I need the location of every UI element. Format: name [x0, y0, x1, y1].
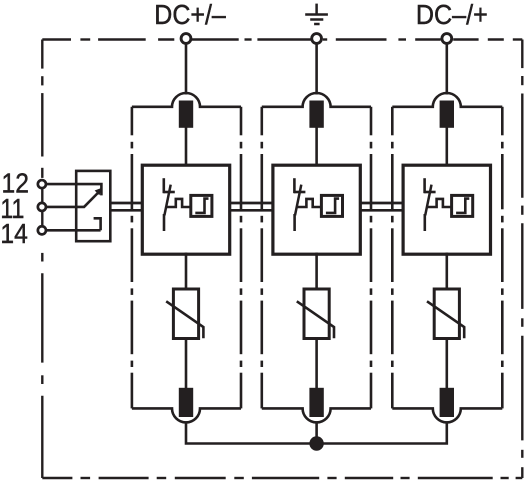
protection module 3 boundary: left edge (dash-dot) [391, 107, 394, 409]
wire from terminal DC+/- down to module 1 [185, 44, 188, 95]
protection module 1 boundary: top edge with plug-in bump [132, 93, 241, 107]
wire terminal 14 to contact [47, 229, 101, 232]
protection module 2 boundary: left edge (dash-dot) [260, 107, 263, 409]
step function glyph inside trigger box, module 3 [456, 199, 469, 213]
ground symbol (earth) above centre terminal [305, 4, 328, 24]
protection module 1 boundary: right edge (dash-dot) [240, 107, 243, 409]
wire from top disconnector to monitoring box, module 2 [315, 127, 318, 167]
protection module 1 boundary: bottom edge with plug-in bump [132, 408, 241, 422]
pulse-waveform link to trigger box, module 2 [297, 199, 322, 207]
monitoring / SCI switching device box of module 1 [142, 165, 229, 254]
varistor diagonal stroke with tail, module 3 [427, 301, 464, 338]
mechanical coupling bus (double line) from remote contact to module 1 [110, 203, 143, 210]
wire terminal 11 to contact (common) [47, 206, 85, 209]
thermal disconnect device (bottom, filled) of module 1 [179, 388, 193, 417]
pulse-waveform link to trigger box, module 1 [166, 199, 191, 207]
thermal disconnect device (top, filled) of module 3 [440, 101, 454, 128]
varistor of module 2 [304, 289, 329, 339]
wire from SCI box to varistor, module 2 [315, 253, 318, 291]
varistor of module 3 [434, 289, 459, 339]
switch contact symbol inside module 1 [163, 178, 174, 231]
mechanical coupling bus (double line) module 1 to module 2 [229, 203, 274, 210]
wire from terminal earth down to module 2 [315, 44, 318, 95]
varistor diagonal stroke with tail, module 1 [166, 301, 203, 338]
svg-text:DC–/+: DC–/+ [416, 0, 488, 30]
protection module 1 boundary: left edge (dash-dot) [131, 107, 134, 409]
thermal disconnect device (top, filled) of module 2 [309, 101, 323, 128]
mechanical coupling bus (double line) module 2 to module 3 [359, 203, 404, 210]
wire from varistor to bottom disconnector, module 3 [445, 337, 448, 390]
pulse-waveform link to trigger box, module 3 [427, 199, 452, 207]
wire from varistor to bottom disconnector, module 1 [185, 337, 188, 390]
wire from top disconnector to monitoring box, module 1 [185, 127, 188, 167]
terminal 14 [38, 226, 46, 234]
trigger box with step symbol, module 1 [191, 195, 212, 216]
protection module 2 boundary: bottom edge with plug-in bump [262, 408, 371, 422]
protection module 3 boundary: right edge (dash-dot) [501, 107, 504, 409]
outer enclosure border, top edge (dash-dot, interrupted by terminals) [42, 38, 522, 40]
step function glyph inside trigger box, module 2 [326, 199, 339, 213]
wire from varistor to bottom disconnector, module 2 [315, 337, 318, 390]
monitoring / SCI switching device box of module 3 [403, 165, 490, 254]
terminal 12 [38, 180, 46, 188]
wire module 2 bottom to common node [315, 421, 318, 443]
switch contact symbol inside module 3 [424, 178, 435, 231]
outer enclosure border, right edge (dash-dot) [521, 40, 523, 479]
wire from terminal DC-/+ down to module 3 [445, 44, 448, 95]
wire from top disconnector to monitoring box, module 3 [445, 127, 448, 167]
svg-text:DC+/–: DC+/– [154, 0, 226, 30]
contact 14 hook [94, 218, 101, 230]
terminal DC-/+ [442, 34, 452, 44]
svg-text:14: 14 [0, 218, 27, 249]
changeover switch blade with arrow tip [84, 193, 98, 207]
terminal earth [312, 34, 322, 44]
varistor of module 1 [173, 289, 198, 339]
thermal disconnect device (bottom, filled) of module 3 [440, 388, 454, 417]
terminal 11 [38, 203, 46, 211]
trigger box with step symbol, module 3 [452, 195, 473, 216]
protection module 3 boundary: bottom edge with plug-in bump [392, 408, 502, 422]
thermal disconnect device (top, filled) of module 1 [179, 101, 193, 128]
varistor diagonal stroke with tail, module 2 [297, 301, 334, 338]
terminal DC+/- [181, 34, 191, 44]
wire module 1 bottom to common rail [186, 421, 317, 443]
remote signalling contact box (FM) [76, 171, 110, 241]
wire module 3 bottom to common rail [317, 421, 447, 443]
trigger box with step symbol, module 2 [321, 195, 342, 216]
thermal disconnect device (bottom, filled) of module 2 [309, 388, 323, 417]
monitoring / SCI switching device box of module 2 [273, 165, 360, 254]
wire from SCI box to varistor, module 3 [445, 253, 448, 291]
wire terminal 12 to contact (with corner stub) [47, 184, 102, 195]
protection module 2 boundary: right edge (dash-dot) [370, 107, 373, 409]
junction node (common floating point) [309, 436, 323, 450]
step function glyph inside trigger box, module 1 [195, 199, 208, 213]
outer enclosure border, bottom edge (dash-dot) [42, 477, 522, 479]
protection module 2 boundary: top edge with plug-in bump [262, 93, 371, 107]
wire from SCI box to varistor, module 1 [185, 253, 188, 291]
protection module 3 boundary: top edge with plug-in bump [392, 93, 502, 107]
outer enclosure border, left edge (dash-dot, interrupted by terminals 12/11/14) [41, 40, 43, 479]
switch contact symbol inside module 2 [294, 178, 305, 231]
